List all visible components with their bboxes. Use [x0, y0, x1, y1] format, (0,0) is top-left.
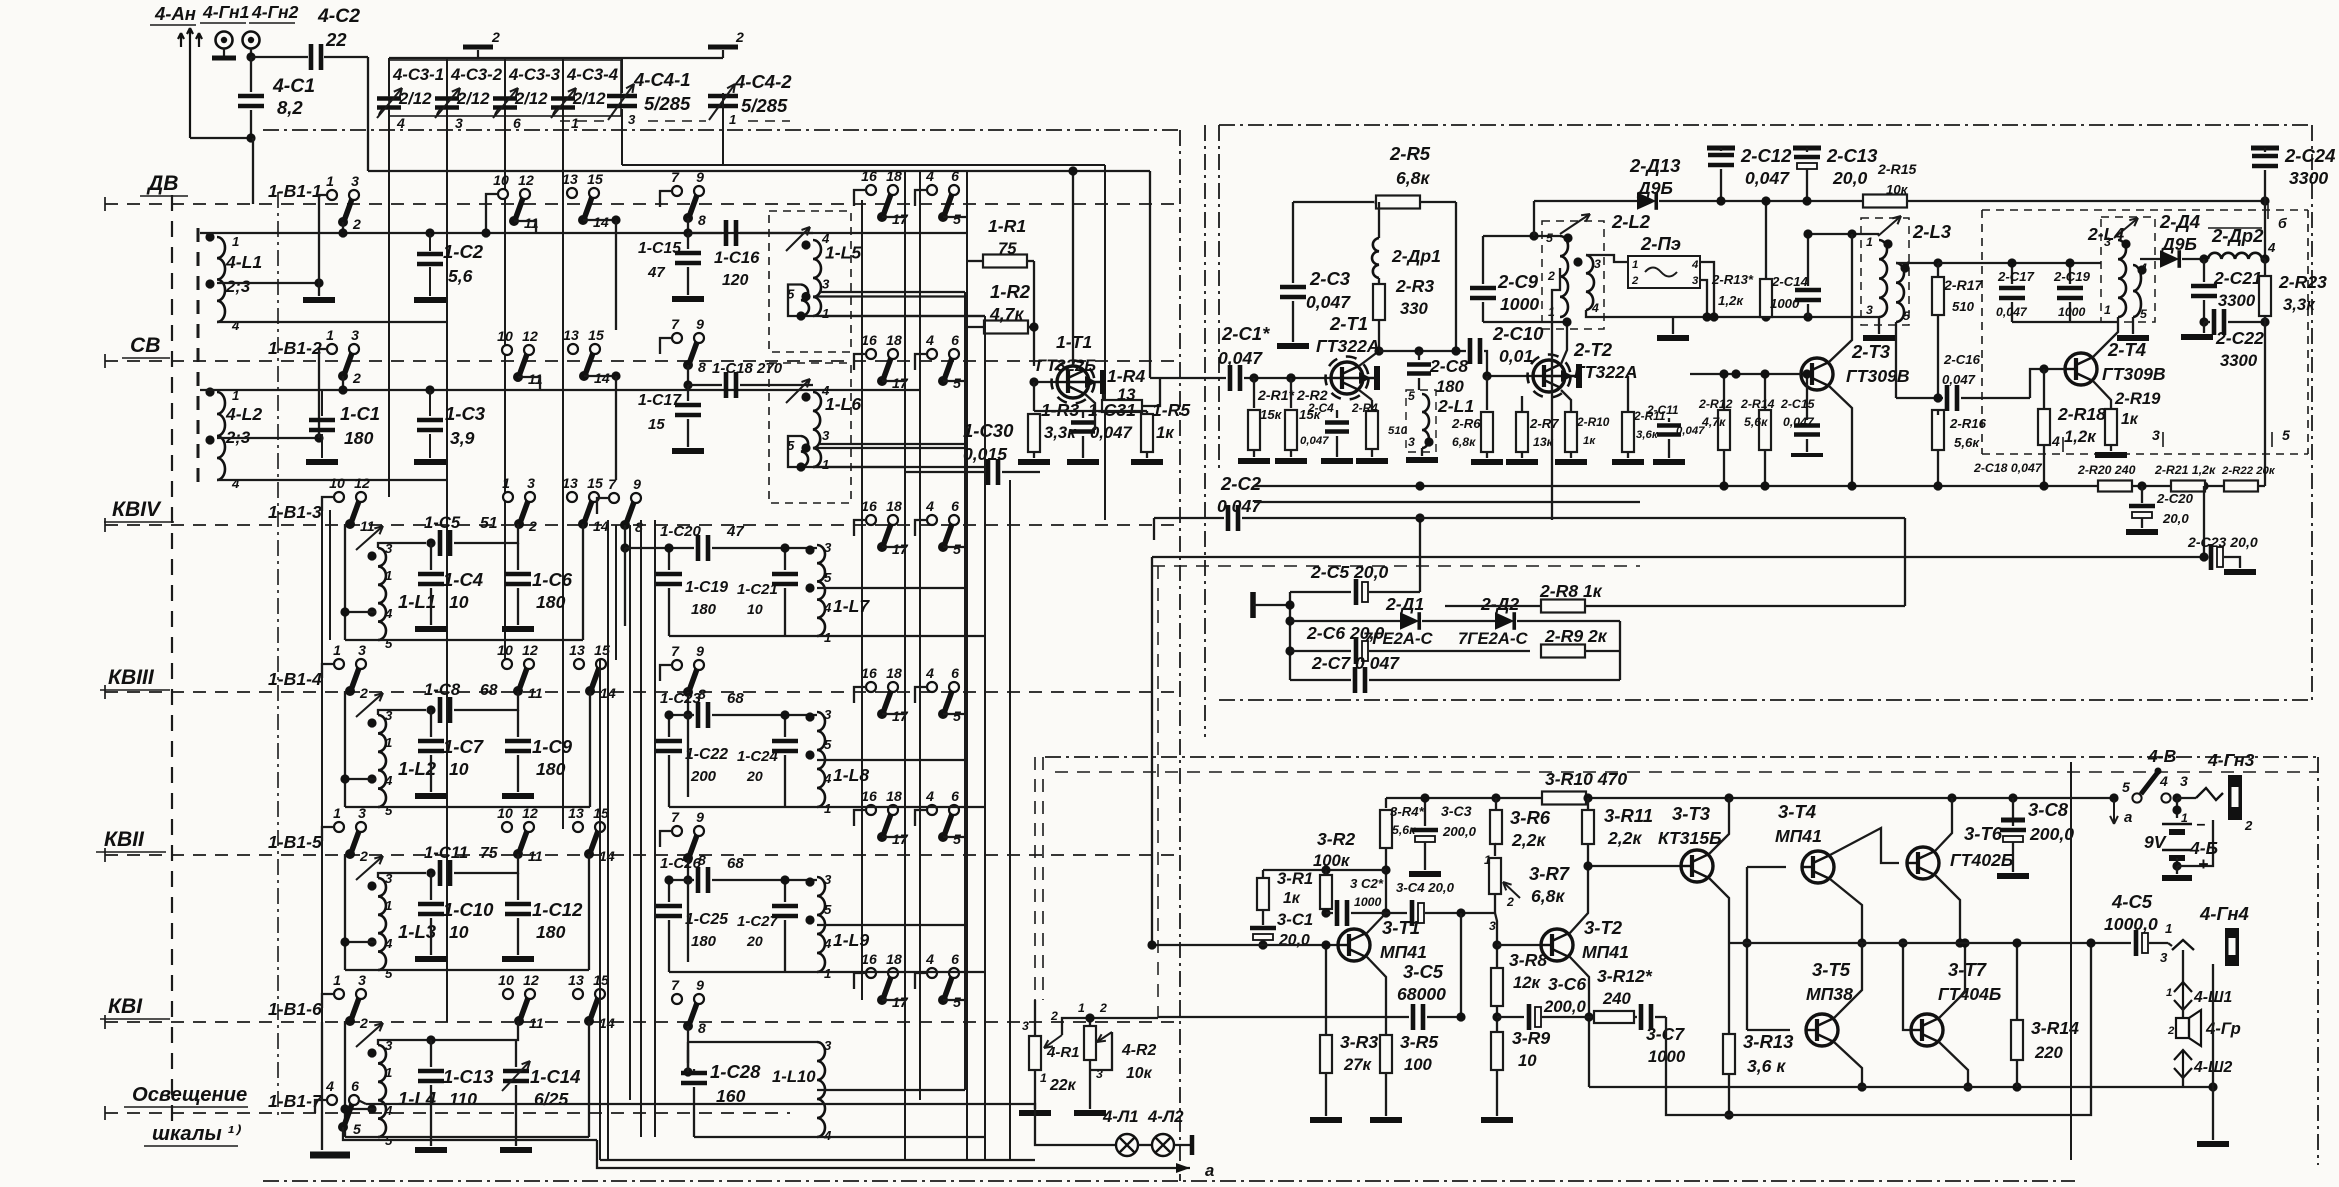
resistor 3-R8 12k: [1491, 968, 1503, 1006]
svg-text:1-C21: 1-C21: [737, 581, 778, 598]
capacitor 1-C3 3,9: [429, 390, 431, 416]
svg-text:2-R12: 2-R12: [1698, 397, 1733, 411]
svg-text:17: 17: [892, 375, 909, 391]
svg-text:4-Гн3: 4-Гн3: [2207, 750, 2255, 770]
capacitor 1-C23 68: [669, 714, 694, 716]
svg-text:1-C10: 1-C10: [443, 899, 494, 920]
svg-text:ГТ309В: ГТ309В: [1846, 366, 1910, 386]
svg-text:5: 5: [2140, 307, 2147, 321]
svg-text:1-L9: 1-L9: [833, 930, 869, 950]
svg-text:4-C1: 4-C1: [272, 75, 315, 97]
gang mechanical link dash: [560, 120, 608, 122]
wire piezo out 4: [1700, 262, 1714, 317]
vertical x967: [966, 170, 968, 1160]
wire y165 matrix: [622, 164, 1105, 166]
resistor 2-R12 4,7k: [1723, 374, 1725, 410]
svg-text:a: a: [1205, 1161, 1214, 1180]
svg-text:+: +: [2198, 854, 2208, 874]
svg-text:2-C14: 2-C14: [1771, 274, 1809, 289]
variable capacitor 4-C3-3 2/12: [505, 60, 563, 116]
svg-text:7: 7: [377, 104, 385, 118]
svg-text:13: 13: [562, 171, 578, 187]
wire sw4 lead: [915, 520, 927, 536]
screened pair dashed: [1034, 757, 1036, 1000]
svg-text:4-В: 4-В: [2147, 746, 2177, 766]
IF transformer 2-L2: [1542, 221, 1604, 329]
svg-text:1-C7: 1-C7: [443, 736, 485, 757]
svg-text:10к: 10к: [1126, 1065, 1153, 1082]
svg-text:1-C17: 1-C17: [638, 392, 682, 409]
IF transformer 2-L4: [2101, 217, 2155, 322]
svg-text:180: 180: [691, 601, 717, 618]
capacitor 2-C13 20,0: [1793, 146, 1821, 151]
wire 4-C3-2 leads: [446, 58, 448, 96]
wire x1150 down: [1149, 171, 1151, 378]
transistor 1-T1 GT322B: [1052, 361, 1095, 404]
switch 1-В1-7 contacts 4-6-5: [327, 1095, 337, 1105]
capacitor 2-C7 0,047: [1290, 679, 1351, 681]
capacitor 1-C9 180: [517, 710, 519, 737]
wire lever5: [943, 999, 967, 1001]
wire AGC y518: [1154, 517, 1224, 519]
svg-text:4: 4: [1591, 301, 1599, 315]
svg-text:13: 13: [563, 327, 579, 343]
svg-text:1-R4: 1-R4: [1107, 366, 1145, 386]
svg-text:18: 18: [886, 498, 902, 514]
svg-text:4-Гн2: 4-Гн2: [251, 2, 299, 22]
wire node to DV row: [252, 138, 254, 204]
arrow a down: [2113, 800, 2115, 824]
wire 4-C3-3 leads: [504, 58, 506, 96]
wire y376 ext: [1627, 375, 1629, 377]
wire jack body down: [2212, 964, 2214, 1140]
wire sw lead: [319, 349, 327, 360]
svg-text:10: 10: [747, 601, 763, 617]
wire collector bus: [1379, 350, 1466, 352]
wire x616 SV down: [615, 376, 617, 480]
wire 2-L2 sec bottom: [1586, 310, 1614, 317]
block 3 top border dash-dot: [1045, 756, 2318, 758]
capacitor 1-C19 180: [668, 548, 670, 570]
svg-text:18: 18: [886, 665, 902, 681]
svg-text:2-R1*: 2-R1*: [1257, 387, 1296, 403]
wire x1461: [1460, 913, 1462, 1017]
wire contact1 column DV: [318, 205, 320, 283]
wire x616 down: [615, 220, 617, 330]
switch contacts 13-15-14: [573, 989, 583, 999]
capacitor 2-C14 1000: [1807, 234, 1809, 286]
svg-text:1-C15: 1-C15: [638, 240, 681, 257]
svg-text:1000: 1000: [2058, 305, 2086, 319]
wire 2-L2 pin2 down: [1552, 268, 1560, 520]
switch contacts 13-15-14: [567, 492, 577, 502]
svg-text:5: 5: [953, 708, 961, 724]
svg-text:3: 3: [824, 707, 832, 722]
wire lever5: [943, 546, 967, 548]
svg-text:1-C26: 1-C26: [660, 855, 702, 872]
transistor 3-T1 MP41: [1338, 929, 1370, 961]
svg-text:220: 220: [2034, 1043, 2064, 1062]
wire sw4 lead: [915, 687, 927, 703]
svg-text:7: 7: [671, 809, 680, 825]
svg-text:16: 16: [861, 498, 877, 514]
resistor 2-R15 10k: [1863, 195, 1907, 208]
capacitor 2-C17 0,047: [2011, 263, 2013, 284]
svg-text:5: 5: [824, 902, 832, 917]
svg-text:16: 16: [861, 332, 877, 348]
svg-text:2,2к: 2,2к: [1607, 828, 1642, 848]
wire lever right column: [582, 524, 584, 640]
svg-text:4: 4: [384, 936, 393, 951]
dashed screen box: [769, 211, 851, 352]
svg-text:5: 5: [953, 375, 961, 391]
svg-text:1: 1: [2166, 987, 2172, 999]
wire 4-C2 to x368: [324, 56, 368, 58]
resistor 2-R23 3,3k: [2264, 201, 2266, 259]
svg-text:1-C30: 1-C30: [963, 420, 1014, 441]
svg-text:3,3к: 3,3к: [2283, 295, 2316, 314]
svg-text:1: 1: [385, 1065, 392, 1080]
coil core arrow: [356, 526, 383, 550]
2-T2 emitter wire: [1561, 390, 1571, 414]
wire osv upper: [358, 1100, 366, 1104]
svg-text:4: 4: [823, 771, 832, 786]
svg-text:75: 75: [480, 845, 498, 862]
svg-text:1: 1: [824, 801, 831, 816]
svg-text:3: 3: [822, 428, 830, 443]
svg-text:3-Т7: 3-Т7: [1948, 959, 1988, 980]
svg-text:4-С5: 4-С5: [2111, 891, 2153, 912]
svg-text:12: 12: [522, 328, 538, 344]
driver rail x1747: [1746, 867, 1748, 1030]
wire sw16 lead: [854, 810, 866, 826]
resistor 3-R5 100: [1380, 1035, 1392, 1073]
wire sw7 lead: [660, 831, 672, 847]
svg-text:ГТ404Б: ГТ404Б: [1938, 984, 2001, 1004]
svg-text:1: 1: [502, 475, 510, 491]
volume feed bundle: [1152, 556, 2204, 558]
capacitor 3-C8 200,0: [2012, 798, 2014, 826]
wire sw4 lead: [915, 810, 927, 826]
resistor 2-R4 510: [1366, 411, 1378, 449]
wire lever5: [943, 713, 967, 715]
svg-text:2-R10: 2-R10: [1576, 415, 1610, 429]
resistor 1-R3 3,3k: [1028, 414, 1040, 452]
switch contacts 7-9-8 KVI: [672, 994, 682, 1004]
coil 1-L5 primary: [813, 240, 821, 316]
svg-text:6: 6: [951, 788, 959, 804]
block 3 top border dashed: [1055, 771, 2318, 773]
svg-text:2-R13*: 2-R13*: [1711, 272, 1754, 287]
wire lever5 osv: [343, 1127, 597, 1140]
wire AGC right vert: [1619, 621, 1621, 680]
DV bus y233: [200, 232, 967, 234]
svg-text:6,8к: 6,8к: [1452, 435, 1476, 449]
svg-text:15: 15: [593, 805, 609, 821]
svg-text:1: 1: [729, 112, 736, 127]
coil 1-L4: [378, 1045, 386, 1137]
capacitor 1-C20 47: [625, 547, 694, 549]
svg-text:3: 3: [358, 642, 366, 658]
svg-text:2-C24: 2-C24: [2284, 145, 2335, 166]
svg-text:0,047: 0,047: [1783, 415, 1815, 429]
resistor 2-R22 20k: [2224, 481, 2258, 492]
svg-text:2-C16: 2-C16: [1943, 352, 1981, 367]
capacitor 2-C10 0,01: [1470, 338, 1480, 364]
svg-text:1,2к: 1,2к: [1718, 293, 1744, 308]
block 2 left border: [1218, 125, 1220, 470]
svg-text:1: 1: [1632, 259, 1638, 271]
svg-text:1-В1-5: 1-В1-5: [268, 832, 322, 852]
capacitor 3-C2 1000: [1326, 912, 1333, 914]
capacitor 1-C4 10: [426, 538, 435, 547]
svg-text:2-L1: 2-L1: [1437, 396, 1474, 416]
svg-text:3-R2: 3-R2: [1317, 829, 1355, 849]
svg-text:15к: 15к: [1260, 407, 1283, 422]
wire to 2-C1: [1150, 377, 1226, 379]
capacitor 1-C13 110: [426, 1035, 435, 1044]
svg-text:4,7к: 4,7к: [1701, 415, 1726, 429]
svg-text:1: 1: [1866, 235, 1873, 249]
diode 2-D1 7GE2A-S: [1290, 620, 1400, 622]
capacitor 2-C22 3300: [2204, 321, 2210, 323]
switch contacts 7-9-8: [672, 660, 682, 670]
svg-text:6/25: 6/25: [534, 1089, 568, 1109]
svg-text:5,6к: 5,6к: [1744, 415, 1768, 429]
capacitor 2-C24 3300: [2251, 146, 2279, 151]
svg-text:3: 3: [1692, 275, 1699, 287]
svg-text:4: 4: [384, 773, 393, 788]
svg-text:2-R4: 2-R4: [1351, 401, 1378, 415]
jack 4-Gn3: [2177, 797, 2196, 799]
resistor 2-R20 240: [2098, 481, 2132, 492]
capacitor 1-C17 15: [687, 385, 689, 401]
svg-text:б: б: [2278, 215, 2288, 231]
svg-text:13: 13: [568, 805, 584, 821]
svg-text:2-L2: 2-L2: [1611, 211, 1651, 232]
resistor 2-R17 510: [1937, 263, 1939, 277]
wire lever8 down: [687, 218, 689, 233]
SV bus y390: [200, 389, 920, 391]
svg-text:7: 7: [671, 977, 680, 993]
switch contacts 4-6-5: [927, 805, 937, 815]
svg-text:ГТ322Б: ГТ322Б: [1036, 356, 1096, 375]
wire lever11 SV: [518, 377, 540, 390]
resistor 2-R18 1,2k: [2043, 369, 2045, 408]
piezo filter 2-Pe: [1628, 256, 1700, 288]
switch contacts 1-3-2: [334, 989, 344, 999]
svg-text:5: 5: [353, 1121, 361, 1137]
svg-text:2-Д2: 2-Д2: [1480, 594, 1519, 614]
svg-text:1: 1: [1484, 853, 1491, 867]
output bus y943: [1728, 942, 2131, 944]
svg-text:13: 13: [562, 475, 578, 491]
wire 2-C21 gnd: [2203, 322, 2205, 333]
svg-text:6,8к: 6,8к: [1531, 886, 1565, 906]
svg-text:2-L4: 2-L4: [2087, 224, 2124, 244]
svg-text:3: 3: [824, 1038, 832, 1053]
2-T1 emitter wire: [1359, 390, 1372, 400]
svg-text:2: 2: [1050, 1009, 1058, 1023]
svg-text:4: 4: [325, 1078, 334, 1094]
svg-text:9V: 9V: [2144, 832, 2167, 852]
svg-text:−: −: [2196, 817, 2205, 834]
svg-text:1-C3: 1-C3: [445, 403, 486, 424]
wire top y202: [1293, 201, 1374, 203]
capacitor 2-C6 20,0: [1290, 650, 1351, 652]
svg-text:2-C10: 2-C10: [1492, 323, 1544, 344]
svg-text:3,6 к: 3,6 к: [1747, 1056, 1786, 1076]
base wire 3-T1: [1152, 944, 1338, 946]
band row line СВ: [105, 360, 1175, 362]
svg-text:4-R2: 4-R2: [1121, 1042, 1156, 1059]
svg-text:20: 20: [746, 768, 763, 784]
wire 2-C1 to base: [1244, 377, 1331, 379]
svg-text:1-C5: 1-C5: [424, 513, 461, 532]
long vertical x330b: [329, 510, 331, 640]
svg-text:2-Др1: 2-Др1: [1391, 246, 1441, 266]
svg-text:2-C3: 2-C3: [1309, 268, 1351, 289]
wire 4-L1 tap to contact: [217, 282, 319, 284]
coil 1-L8: [817, 712, 825, 807]
svg-text:1: 1: [824, 966, 831, 981]
switch 4-V: [2109, 793, 2118, 802]
resistor 3-R4 5,6k: [1385, 798, 1387, 808]
svg-text:1: 1: [385, 735, 392, 750]
svg-text:1000: 1000: [1500, 294, 1539, 314]
svg-text:100к: 100к: [1313, 851, 1351, 870]
wire sw lead: [322, 827, 334, 841]
svg-text:27к: 27к: [1343, 1055, 1373, 1074]
svg-text:110: 110: [449, 1089, 477, 1109]
svg-text:2: 2: [2167, 1025, 2175, 1037]
wire y322 det: [2012, 321, 2118, 323]
svg-text:3-R10 470: 3-R10 470: [1545, 769, 1627, 789]
switch contacts 16-18-17: [866, 968, 876, 978]
svg-text:3: 3: [2160, 950, 2168, 965]
base wire 3-T4: [1747, 866, 1786, 868]
svg-text:2-R15: 2-R15: [1877, 161, 1917, 177]
svg-text:2-С5 20,0: 2-С5 20,0: [1310, 562, 1388, 582]
svg-text:КВIV: КВIV: [112, 498, 162, 521]
svg-text:МП41: МП41: [1582, 942, 1629, 962]
svg-text:Д9Б: Д9Б: [2160, 234, 2197, 254]
svg-text:1-R5: 1-R5: [1152, 400, 1190, 420]
capacitor 1-C11 75: [378, 873, 426, 878]
block 2 bottom border: [1219, 699, 2312, 701]
shield dashed line for antenna coils: [197, 228, 200, 490]
2-T3 base wire: [1690, 373, 1801, 375]
svg-text:3: 3: [1022, 1019, 1029, 1033]
ground 2-L4 sec: [2132, 317, 2134, 334]
wire lever right column: [588, 854, 590, 970]
svg-text:4: 4: [231, 476, 240, 491]
capacitor 4-C5 1000,0: [2134, 930, 2139, 956]
svg-text:2,2к: 2,2к: [1511, 830, 1546, 850]
wire lever11: [514, 221, 536, 233]
wire KVI bottom: [694, 1136, 817, 1138]
wire DV out y292: [820, 291, 965, 293]
2-T4 emitter wire: [2093, 381, 2111, 408]
svg-text:5,6к: 5,6к: [1954, 435, 1980, 450]
wire lever to bus: [342, 222, 344, 233]
switch contacts 10-12-11: [502, 659, 512, 669]
svg-text:2: 2: [735, 29, 744, 45]
switch 1-В1-2 contacts 13-15-14: [568, 344, 578, 354]
band row line КВIII: [105, 691, 1175, 693]
svg-text:1-C1: 1-C1: [340, 403, 380, 424]
wire lever2 SV: [342, 376, 344, 390]
wire sw4 lead: [915, 973, 927, 989]
svg-text:8: 8: [698, 212, 706, 228]
svg-text:4: 4: [925, 168, 934, 184]
wire R3-C31 top: [1034, 410, 1147, 412]
switch contacts 4-6-5: [927, 185, 937, 195]
switch contacts 4-6-5: [927, 349, 937, 359]
svg-text:1: 1: [326, 327, 334, 343]
resistor 2-R9 2k: [1541, 645, 1585, 658]
ground 2-L1: [1421, 448, 1423, 456]
variable capacitor 4-C4-1 5/285: [607, 96, 637, 106]
coil tap wire: [345, 778, 376, 780]
ground y317: [1672, 317, 1674, 334]
svg-text:8: 8: [698, 1020, 706, 1036]
3-T3 collector wire: [1709, 798, 1729, 854]
transistor 3-T5 MP38: [1806, 1014, 1838, 1046]
svg-text:10: 10: [449, 759, 469, 779]
wire 4-R2 wiper: [1090, 1032, 1112, 1070]
vertical x630: [629, 525, 631, 1100]
inter-block vertical dash x1205: [1204, 125, 1206, 737]
wire sw lead 1-В1-7: [315, 1100, 327, 1113]
svg-text:5: 5: [2122, 779, 2130, 795]
wire 1-L10 top: [688, 1041, 817, 1043]
svg-text:4: 4: [2267, 240, 2276, 255]
svg-text:1: 1: [2165, 921, 2172, 936]
svg-text:15: 15: [593, 972, 609, 988]
block 1 right border: [1179, 130, 1181, 1181]
svg-text:4-С3-4: 4-С3-4: [566, 65, 618, 84]
wire between lamps: [1138, 1144, 1152, 1146]
svg-text:2-Д4: 2-Д4: [2159, 211, 2200, 232]
coil core arrow: [356, 1023, 383, 1047]
svg-text:2-R22 20к: 2-R22 20к: [2221, 465, 2276, 477]
choke 2-Dr2: [2208, 253, 2262, 259]
svg-text:2-R19: 2-R19: [2114, 389, 2161, 408]
svg-text:3: 3: [1594, 257, 1601, 271]
switch contacts 1-3-2: [503, 492, 513, 502]
wire lever8 down: [624, 525, 626, 548]
wiper wire 4-R1: [1062, 1018, 1158, 1035]
svg-text:1-C11: 1-C11: [424, 843, 468, 862]
svg-text:2-Д13: 2-Д13: [1629, 155, 1681, 176]
svg-text:3: 3: [824, 872, 832, 887]
coil 1-L6 secondary: [801, 436, 808, 467]
svg-text:68: 68: [480, 682, 498, 699]
svg-text:510: 510: [1952, 299, 1975, 314]
resistor 2-R19 1k: [2105, 409, 2117, 445]
switch contacts 16-18-17: [866, 682, 876, 692]
svg-text:0,047: 0,047: [1218, 348, 1263, 368]
svg-text:2: 2: [352, 216, 361, 232]
ground under DV contact: [303, 297, 335, 303]
transistor 2-T3 GT309V: [1801, 358, 1833, 390]
resistor 2-R5 6,8k: [1376, 196, 1420, 209]
wire 2-R8 up: [1904, 518, 1906, 606]
capacitor 2-C20 20,0: [2141, 486, 2143, 503]
vertical x920: [919, 170, 921, 1100]
resistor 3-R13 3,6k: [1723, 1034, 1735, 1074]
